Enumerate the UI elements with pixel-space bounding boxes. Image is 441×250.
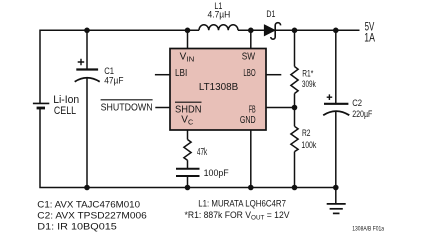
node: GND bottom junction: [248, 185, 254, 191]
wire R2 to bottom rail: [294, 152, 296, 188]
op-amp U1: LT1308B IC body: [170, 49, 266, 131]
pin SW wire: [250, 30, 252, 48]
C1 plus sign: [78, 59, 85, 65]
svg-text:D1: IR 10BQ015: D1: IR 10BQ015: [37, 221, 117, 231]
node: diode cathode junction: [292, 28, 298, 34]
wire FB node to R2: [294, 108, 296, 127]
svg-text:C2: AVX TPSD227M006: C2: AVX TPSD227M006: [37, 211, 147, 221]
svg-text:SHDN: SHDN: [175, 104, 202, 115]
capacitor C2: [323, 30, 349, 187]
pin GND wire: [250, 130, 252, 188]
inductor L1: [199, 25, 238, 31]
resistor R2: [291, 126, 298, 151]
svg-text:1A: 1A: [364, 30, 375, 44]
svg-text:SHUTDOWN: SHUTDOWN: [101, 102, 153, 113]
IC pin label VIN: [180, 52, 195, 64]
wire left rail lower segment: [40, 108, 336, 188]
svg-text:R1*: R1*: [302, 69, 313, 80]
pin LBO stub: [266, 74, 281, 76]
wire diode junction down to R1: [294, 30, 296, 66]
IC pin label SHDN with overline: [175, 102, 202, 115]
ground: [327, 188, 346, 214]
svg-text:C2: C2: [352, 98, 362, 109]
node: C1 top junction: [84, 28, 90, 34]
SHUTDOWN input label with overline: [101, 100, 153, 114]
resistor R1: [291, 67, 298, 94]
svg-text:R2: R2: [302, 128, 311, 139]
svg-text:47µF: 47µF: [104, 76, 123, 87]
svg-text:220µF: 220µF: [352, 109, 372, 120]
pin VC wire: [187, 130, 189, 140]
C2 plus sign: [327, 94, 333, 100]
svg-text:L1: MURATA LQH6C4R7: L1: MURATA LQH6C4R7: [198, 199, 286, 209]
svg-text:D1: D1: [266, 9, 275, 20]
svg-text:LT1308B: LT1308B: [199, 82, 239, 93]
svg-text:309k: 309k: [302, 79, 316, 90]
node: ground junction: [333, 185, 339, 191]
svg-text:LBI: LBI: [175, 68, 187, 79]
pin FB wire: [266, 107, 295, 109]
node: VIN junction: [185, 28, 191, 34]
svg-text:FB: FB: [249, 104, 256, 115]
wire R1 to FB node: [294, 94, 296, 108]
IC pin label VC: [181, 115, 193, 127]
battery Li-Ion cell: [33, 103, 49, 108]
svg-text:C: C: [188, 117, 193, 126]
node: C1 bottom junction: [84, 185, 90, 191]
svg-text:4.7µH: 4.7µH: [208, 9, 231, 20]
node: R2 bottom junction: [292, 185, 298, 191]
svg-text:IN: IN: [186, 54, 194, 63]
wire inductor to diode: [238, 29, 264, 31]
pin VIN wire: [187, 30, 189, 48]
svg-text:100pF: 100pF: [204, 168, 229, 179]
svg-text:*R1: 887k FOR VOUT = 12V: *R1: 887k FOR VOUT = 12V: [185, 210, 290, 222]
svg-text:47k: 47k: [197, 147, 208, 158]
svg-text:LBO: LBO: [243, 68, 255, 79]
svg-text:1308A/B F01a: 1308A/B F01a: [352, 227, 384, 233]
capacitor 100pF: [176, 169, 200, 188]
wire SHUTDOWN to SHDN pin: [155, 107, 170, 109]
pin LBI stub: [155, 74, 170, 76]
node: VC network bottom junction: [185, 185, 191, 191]
svg-text:100k: 100k: [301, 140, 316, 151]
wire top rail left segment (battery to inductor): [40, 30, 199, 103]
wire top rail right segment (diode to output): [276, 29, 360, 31]
node: FB divider junction: [292, 105, 298, 111]
svg-text:CELL: CELL: [54, 105, 76, 117]
svg-text:GND: GND: [240, 115, 256, 126]
capacitor C1: [75, 30, 100, 187]
svg-text:SW: SW: [242, 52, 256, 63]
node: C2 top junction: [333, 28, 339, 34]
resistor 47k (VC compensation): [184, 140, 191, 161]
wire 47k to 100pF: [187, 160, 189, 169]
node: SW junction: [248, 28, 254, 34]
svg-text:C1: AVX TAJC476M010: C1: AVX TAJC476M010: [37, 200, 140, 210]
diode D1 (Schottky): [264, 23, 280, 40]
